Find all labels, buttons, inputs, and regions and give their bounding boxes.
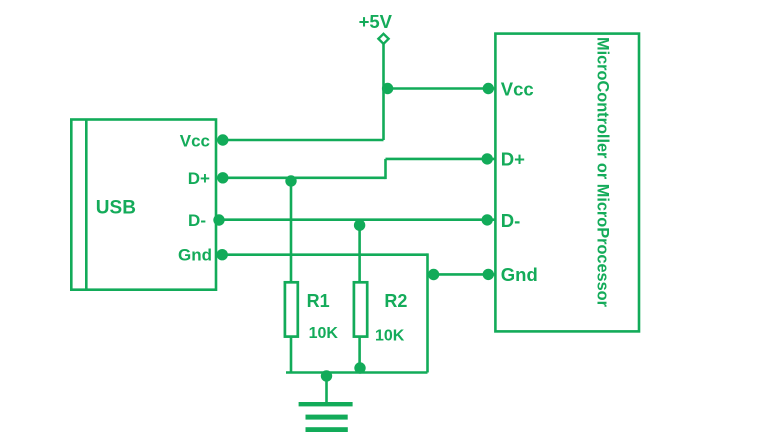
- svg-text:Vcc: Vcc: [501, 78, 534, 99]
- ground bar 1: [299, 402, 353, 406]
- resistor R2: [354, 282, 367, 336]
- svg-text:D+: D+: [188, 169, 210, 188]
- svg-text:D-: D-: [501, 210, 521, 231]
- wire R1 top lead from D+: [290, 178, 293, 282]
- resistor R1: [285, 282, 298, 336]
- junction dot MCU D- pin: [482, 214, 493, 225]
- svg-text:Vcc: Vcc: [180, 131, 210, 150]
- ground bar 3: [306, 427, 348, 432]
- junction dot USB D- pin: [213, 214, 224, 225]
- wire USB Gnd horizontal: [216, 253, 428, 256]
- junction dot MCU Vcc pin: [483, 83, 494, 94]
- wire D+ to MCU D+: [386, 158, 496, 161]
- svg-text:D-: D-: [188, 211, 206, 230]
- wire D+ step vertical: [384, 159, 387, 179]
- junction dot R2 on D-: [354, 220, 365, 231]
- wire R1 bottom lead: [290, 337, 293, 373]
- svg-text:R1: R1: [307, 291, 330, 311]
- wire USB D- to MCU D-: [216, 218, 495, 221]
- junction dot R1 on D+: [285, 175, 296, 186]
- wire ground stem: [325, 373, 328, 404]
- junction dot MCU Gnd pin: [483, 269, 494, 280]
- wire R2 bottom lead: [358, 337, 361, 373]
- svg-text:Gnd: Gnd: [501, 264, 538, 285]
- MicroController box U1: [495, 34, 639, 332]
- svg-text:USB: USB: [96, 197, 136, 218]
- svg-text:+5V: +5V: [359, 11, 393, 32]
- wire +5V vertical: [382, 44, 385, 141]
- svg-text:MicroController or MicroProces: MicroController or MicroProcessor: [594, 37, 613, 307]
- junction dot ground stem on rail: [321, 370, 332, 381]
- junction dot +5V node: [382, 83, 393, 94]
- svg-text:10K: 10K: [309, 325, 339, 342]
- svg-text:Gnd: Gnd: [178, 246, 212, 265]
- junction dot USB Gnd pin: [217, 249, 228, 260]
- svg-text:R2: R2: [384, 291, 407, 311]
- junction dot MCU D+ pin: [482, 153, 493, 164]
- wire bottom ground rail: [286, 371, 428, 374]
- wire Gnd vertical: [426, 253, 429, 372]
- USB box inner line: [85, 120, 88, 290]
- junction dot USB D+ pin: [217, 172, 228, 183]
- USB box: [71, 120, 216, 290]
- wire +5V node to MCU Vcc: [384, 87, 496, 90]
- junction dot R2 on rail: [354, 362, 365, 373]
- junction dot Gnd tee: [428, 269, 439, 280]
- wire USB Vcc to +5V vertical: [216, 139, 384, 142]
- svg-text:D+: D+: [501, 149, 525, 170]
- svg-text:10K: 10K: [375, 327, 405, 344]
- wire Gnd branch to MCU Gnd: [428, 273, 496, 276]
- wire R2 top lead from D-: [358, 220, 361, 283]
- junction dot USB Vcc pin: [217, 134, 228, 145]
- ground bar 2: [306, 415, 348, 420]
- wire USB D+ horizontal: [216, 177, 386, 180]
- power symbol +5V diamond: [378, 34, 388, 44]
